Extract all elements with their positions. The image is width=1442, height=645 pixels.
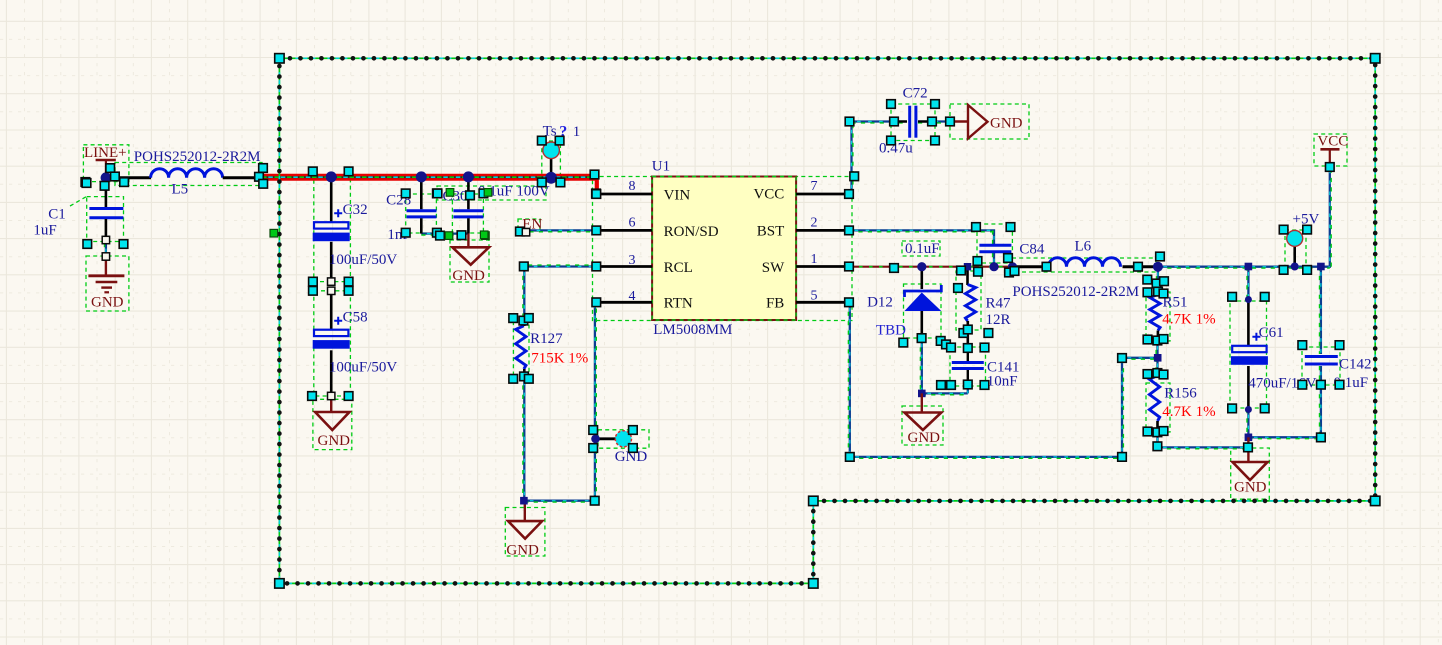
svg-text:3: 3 [629,253,636,268]
svg-text:2: 2 [811,216,818,231]
junction R127 gnd [520,497,528,505]
svg-text:8: 8 [629,179,636,194]
svg-text:SW: SW [762,260,785,276]
inductor L5 [151,169,223,178]
selection box C58 [314,291,351,396]
svg-text:GND: GND [908,430,941,446]
wire C61 top [1247,267,1249,301]
junction Ts [545,172,557,184]
svg-text:0.1uF: 0.1uF [905,241,940,257]
selection box Ts [542,141,561,182]
svg-text:VCC: VCC [753,187,784,203]
selection box C84 value [902,241,940,256]
selection box C141 [950,347,986,386]
selection box C58 GND [313,399,352,449]
junction +5V [1291,263,1299,271]
svg-text:C58: C58 [343,309,368,325]
svg-text:D12: D12 [867,295,893,311]
selection box VCC port [1314,134,1347,166]
selection box GND testpoint [598,430,649,448]
junction R47 [964,263,971,270]
svg-text:4.7K 1%: 4.7K 1% [1162,404,1215,420]
selection box D12 [904,284,942,338]
selection box LINE+ port [83,145,128,182]
svg-text:R47: R47 [986,296,1012,312]
capacitor C84 [979,244,1011,247]
svg-text:4.7K 1%: 4.7K 1% [1162,312,1215,328]
svg-text:6: 6 [629,215,636,230]
wire VCC pin7 to C72 [849,122,907,195]
selection box R51 [1146,292,1170,341]
ground C58 GND [330,396,332,412]
svg-text:R127: R127 [530,331,563,347]
svg-text:RTN: RTN [664,296,693,312]
selection box EN label [518,219,540,231]
svg-text:LM5008MM: LM5008MM [653,322,732,338]
svg-text:GND: GND [452,268,485,284]
wire C72 to GND port [918,120,950,122]
junction C30 [463,171,474,182]
wire C1 mid segment [105,243,107,257]
svg-text:VIN: VIN [664,188,691,204]
junction testpoint [591,435,600,444]
op-amp U1 body [652,177,796,321]
resistor R127 [523,318,526,326]
wire R51 top [1157,267,1159,292]
svg-text:4: 4 [629,289,636,304]
earth ground C1 GND [105,257,107,276]
ground D12 GND [921,393,923,412]
wire C141 bottom [967,385,969,393]
resistor R47 [966,267,969,285]
svg-text:10nF: 10nF [987,374,1018,390]
svg-text:C72: C72 [903,86,928,102]
junction L6 in [1008,262,1017,271]
dot C61 pin2 [1245,406,1252,413]
junction L6 out [1153,262,1163,272]
selection box C61 GND [1231,448,1270,499]
junction C142 top [1317,263,1325,271]
junction FB mid [1154,354,1162,362]
svg-text:7: 7 [811,179,818,194]
svg-text:GND: GND [91,295,124,311]
svg-text:C142: C142 [1339,357,1372,373]
svg-text:C84: C84 [1019,242,1045,258]
svg-text:GND: GND [318,433,351,449]
red VIN bus wire [262,174,597,181]
svg-text:LINE+: LINE+ [84,145,127,161]
inductor L6 [1013,265,1049,268]
selection box C1 GND [86,256,129,311]
selection box C30 GND [450,240,489,282]
wire FB divider [849,302,1158,457]
junction C84 [989,262,998,271]
svg-text:GND: GND [1234,480,1267,496]
selection box D12 GND [902,406,943,445]
capacitor C58 [330,291,333,330]
selection box C84 [977,224,1012,263]
svg-text:GND: GND [990,116,1023,132]
testpoint Ts [550,159,553,178]
svg-text:U1: U1 [652,159,670,175]
ground R127 GND [524,501,526,521]
selection box C61 [1230,301,1267,408]
wire SW net (dark red) [849,266,1013,268]
svg-text:100uF/50V: 100uF/50V [329,252,398,268]
svg-text:POHS252012-2R2M: POHS252012-2R2M [134,149,261,165]
svg-text:VCC: VCC [1317,134,1348,150]
grid [5,0,7,645]
svg-text:L6: L6 [1075,239,1092,255]
power port LINE+ [96,159,116,162]
selection box C72 GND [950,104,1029,139]
svg-text:1: 1 [573,124,581,140]
svg-text:715K 1%: 715K 1% [531,350,588,366]
svg-text:FB: FB [766,296,784,312]
wire input node [106,176,151,179]
wire C61 bottom node [1247,409,1249,437]
boundary vertex handles [275,54,284,63]
selection box C30 [452,194,483,233]
junction D12 [917,262,926,271]
svg-text:BST: BST [757,223,785,239]
svg-text:C32: C32 [343,202,368,218]
wire R127 bottom loop [524,302,595,500]
svg-text:POHS252012-2R2M: POHS252012-2R2M [1012,284,1139,300]
power port GND right-triangle [950,120,968,122]
resistor R51 [1157,292,1160,295]
svg-text:0.47u: 0.47u [879,141,913,157]
junction C61 bottom [1245,434,1253,442]
svg-text:GND: GND [506,542,539,558]
junction D12 gnd [918,390,926,398]
wire R51 to R156 [1156,341,1158,358]
selection box C32 [314,179,351,282]
ground C61 GND [1247,437,1249,461]
wire R156 bottom [1158,432,1249,447]
junction C32 [326,171,337,182]
wire D12 to GND node [922,338,968,393]
selection box C72 [891,104,935,141]
svg-text:1: 1 [811,252,818,267]
selection box +5V testpoint [1285,230,1306,268]
resistor R156 [1156,373,1159,376]
capacitor C61 [1247,299,1250,346]
capacitor C1 [89,207,123,210]
svg-text:12R: 12R [986,312,1011,328]
wire BST pin2 to C84 [849,230,994,244]
selection box C1 [87,197,124,242]
capacitor C30 [467,177,470,209]
svg-text:RCL: RCL [664,260,693,276]
svg-text:1uF: 1uF [33,223,56,239]
junction C61 top [1245,263,1253,271]
region boundary [279,58,1375,583]
capacitor C142 [1305,355,1338,358]
svg-text:100uF/50V: 100uF/50V [329,360,398,376]
wire L6 out node [1158,167,1330,267]
selection box R47 [956,271,981,330]
wire C142 bottom [1320,366,1322,437]
selection handles [81,178,90,187]
testpoint GND [596,437,617,440]
wire RCL pin 3 to R127 [524,267,598,318]
svg-text:C1: C1 [48,206,66,222]
wire C142 top [1320,267,1322,355]
svg-text:C61: C61 [1259,325,1284,341]
selection box L5 [115,163,262,186]
wire C61 to C142 bottom [1248,436,1321,438]
svg-text:R156: R156 [1164,386,1197,402]
selection box R127 [513,319,529,379]
wire C84 to SW node [993,253,995,267]
power port VCC [1320,148,1339,151]
svg-text:TBD: TBD [876,323,906,339]
selection box L6 [1012,258,1156,272]
selection box C28 [406,194,437,233]
capacitor C72 [908,106,911,138]
selection box C142 [1302,347,1340,385]
capacitor C141 [952,361,984,364]
selection box R156 [1146,383,1170,432]
capacitor C32 [330,177,333,222]
junction C28 [416,171,427,182]
ground C30 GND [467,234,469,247]
svg-text:5: 5 [811,289,818,304]
capacitor C28 [420,177,423,209]
selection box U1 [593,177,853,321]
svg-text:RON/SD: RON/SD [664,224,719,240]
selection box C30 value [437,186,546,200]
dot C61 pin1 [1245,296,1252,303]
wire EN to RON/SD pin 6 [520,229,598,231]
selection box R127 GND [505,508,545,557]
diode D12 [920,267,923,289]
wire C28 to C30 gnd [421,232,468,234]
junction input [101,172,112,183]
testpoint +5V [1293,246,1296,266]
svg-text:L5: L5 [172,182,189,198]
